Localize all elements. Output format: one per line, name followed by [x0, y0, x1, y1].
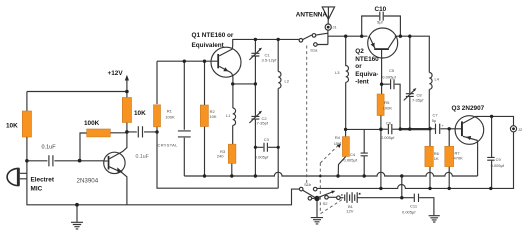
svg-text:C5: C5 [389, 68, 395, 73]
svg-text:0.005μf: 0.005μf [382, 74, 396, 79]
svg-text:or: or [355, 63, 362, 70]
svg-text:10K: 10K [134, 110, 146, 117]
svg-text:15K: 15K [334, 141, 341, 146]
svg-text:0.005μf: 0.005μf [381, 135, 395, 140]
svg-text:0.1uF: 0.1uF [42, 144, 57, 150]
svg-text:MIC: MIC [31, 186, 43, 193]
svg-text:0.005μf: 0.005μf [491, 163, 505, 168]
svg-text:Equivalent: Equivalent [192, 42, 225, 49]
svg-text:+12V: +12V [108, 70, 124, 77]
svg-text:R5: R5 [384, 100, 390, 105]
svg-text:100K: 100K [84, 120, 100, 127]
svg-text:12V: 12V [346, 208, 353, 213]
svg-text:240: 240 [217, 153, 224, 158]
svg-text:-lent: -lent [355, 79, 369, 86]
svg-text:C9: C9 [496, 157, 502, 162]
svg-text:0.005μf: 0.005μf [344, 157, 358, 162]
svg-text:2N3904: 2N3904 [77, 178, 99, 185]
svg-text:Q3 2N2907: Q3 2N2907 [452, 105, 485, 112]
svg-text:Equiva-: Equiva- [355, 71, 378, 78]
svg-text:L3: L3 [335, 70, 340, 75]
svg-text:C7: C7 [433, 112, 439, 117]
svg-text:S1a: S1a [310, 47, 318, 52]
svg-text:C3: C3 [264, 137, 270, 142]
svg-text:5μ: 5μ [432, 118, 437, 123]
svg-text:ANTENNA: ANTENNA [296, 12, 328, 19]
svg-text:R4: R4 [335, 135, 341, 140]
svg-text:0.005μf: 0.005μf [255, 154, 269, 159]
svg-text:7-35μf: 7-35μf [412, 97, 424, 102]
svg-text:3.5-12pf: 3.5-12pf [262, 58, 278, 63]
svg-text:CRYSTAL: CRYSTAL [158, 143, 179, 148]
svg-text:0.005μf: 0.005μf [402, 210, 416, 215]
svg-text:C6: C6 [386, 121, 392, 126]
svg-text:Electret: Electret [31, 177, 55, 184]
svg-text:5μf: 5μf [377, 20, 384, 25]
svg-text:Q1 NTE160 or: Q1 NTE160 or [192, 32, 234, 39]
svg-text:C10: C10 [375, 6, 387, 13]
svg-text:100K: 100K [383, 105, 393, 110]
svg-text:C11: C11 [410, 204, 418, 209]
svg-text:S2: S2 [323, 201, 329, 206]
svg-text:0.1uF: 0.1uF [136, 154, 149, 160]
svg-text:1K: 1K [434, 156, 439, 161]
svg-text:L4: L4 [435, 77, 440, 82]
svg-text:100K: 100K [165, 115, 175, 120]
svg-text:7-35pf: 7-35pf [257, 121, 269, 126]
svg-text:R1: R1 [167, 109, 173, 114]
svg-text:S1b: S1b [304, 182, 312, 187]
svg-text:L2: L2 [285, 79, 290, 84]
svg-text:NTE160: NTE160 [355, 56, 379, 63]
svg-text:470K: 470K [454, 155, 464, 160]
svg-text:10K: 10K [6, 123, 18, 130]
svg-text:L1: L1 [226, 113, 231, 118]
svg-text:10K: 10K [209, 114, 216, 119]
svg-text:Q2: Q2 [355, 48, 364, 55]
